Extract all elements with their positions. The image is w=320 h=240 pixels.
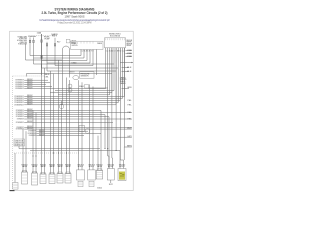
svg-text:PNK: PNK — [127, 53, 132, 55]
svg-text:RED/WHT: RED/WHT — [27, 115, 33, 117]
svg-text:RED/WHT: RED/WHT — [27, 111, 33, 113]
svg-text:OXYGENSENSOR: OXYGENSENSOR — [16, 116, 24, 118]
svg-text:OXYGENSENSOR: OXYGENSENSOR — [15, 88, 24, 90]
svg-text:Friday,December13,2002,11:04:3: Friday,December13,2002,11:04:38PM — [58, 22, 92, 25]
svg-text:FUELINJ: FUELINJ — [57, 164, 63, 166]
svg-text:IGN: IGN — [79, 86, 84, 88]
svg-text:1 2 3 4 5 6 7 8 9 0 1 2: 1 2 3 4 5 6 7 8 9 0 1 2 — [106, 50, 125, 52]
svg-text:RED/WHT: RED/WHT — [27, 113, 33, 115]
svg-text:OXYGENSENSOR: OXYGENSENSOR — [28, 131, 36, 133]
svg-text:MODULE(ECM): MODULE(ECM) — [110, 35, 120, 37]
svg-text:HOTATALLTIMES: HOTATALLTIMES — [18, 43, 28, 46]
svg-text:RED/WHT: RED/WHT — [27, 121, 33, 123]
svg-text:OXYGENSENSOR: OXYGENSENSOR — [15, 86, 24, 88]
svg-text:RED/WHT: RED/WHT — [27, 81, 33, 83]
svg-text:BODY: BODY — [108, 166, 114, 168]
svg-text:OXYGENSENSOR: OXYGENSENSOR — [15, 82, 24, 84]
svg-text:KNOCK: KNOCK — [71, 41, 77, 43]
svg-text:FUELINJ: FUELINJ — [49, 164, 55, 166]
svg-text:THROTTLE: THROTTLE — [88, 164, 95, 166]
svg-text:FUELINJ: FUELINJ — [65, 164, 71, 166]
svg-text:CASS: CASS — [97, 42, 102, 45]
svg-text:FUELINJ: FUELINJ — [22, 164, 28, 166]
svg-text:RED/WHT: RED/WHT — [27, 87, 33, 89]
svg-text:OXYGENSENSOR: OXYGENSENSOR — [14, 102, 24, 104]
svg-text:RED/WHT: RED/WHT — [27, 97, 33, 99]
svg-text:GRN: GRN — [127, 87, 131, 89]
svg-text:OXYGENSENSOR: OXYGENSENSOR — [15, 84, 24, 86]
svg-text:RED/WHT: RED/WHT — [39, 130, 45, 132]
svg-text:IGNITION: IGNITION — [72, 45, 78, 47]
svg-text:30A: 30A — [32, 35, 36, 38]
svg-text:REFER: REFER — [127, 43, 133, 45]
svg-text:SHIELD: SHIELD — [120, 79, 128, 81]
svg-text:RED/WHT: RED/WHT — [27, 83, 33, 85]
svg-text:RED/WHT: RED/WHT — [27, 103, 33, 105]
svg-text:OXYGENSENSOR: OXYGENSENSOR — [28, 133, 37, 135]
svg-text:OXYGENSENSOR: OXYGENSENSOR — [16, 112, 24, 114]
svg-text:OXYGENSENSOR: OXYGENSENSOR — [14, 104, 24, 106]
svg-text:SHIELD: SHIELD — [120, 83, 127, 85]
svg-text:OXYGENSENSOR: OXYGENSENSOR — [16, 122, 24, 124]
svg-text:PUMP: PUMP — [45, 39, 50, 41]
svg-text:BOOST: BOOST — [70, 72, 75, 74]
svg-text:RED/WHT: RED/WHT — [39, 132, 45, 134]
svg-text:BLK: BLK — [127, 71, 132, 73]
svg-text:RED/WHT: RED/WHT — [27, 126, 33, 128]
svg-text:RLY: RLY — [52, 36, 57, 38]
svg-text:RED/WHT: RED/WHT — [39, 134, 45, 136]
svg-text:OXYGENSENSOR: OXYGENSENSOR — [16, 127, 24, 129]
svg-text:SHIELD: SHIELD — [120, 81, 126, 83]
svg-text:PNK: PNK — [127, 50, 132, 52]
svg-text:G101: G101 — [97, 188, 102, 190]
svg-text:BLK: BLK — [127, 67, 132, 69]
svg-text:OXYGENSENSOR: OXYGENSENSOR — [14, 98, 24, 100]
svg-text:MAIN: MAIN — [52, 33, 58, 36]
svg-text:BODY: BODY — [78, 166, 84, 168]
svg-text:BRN: BRN — [127, 146, 132, 148]
svg-text:YEL: YEL — [127, 119, 132, 121]
svg-text:PRESSURE: PRESSURE — [81, 73, 90, 75]
svg-text:YEL: YEL — [127, 100, 132, 102]
svg-text:OXYGENSENSOR: OXYGENSENSOR — [14, 100, 24, 102]
svg-text:RED/WHT: RED/WHT — [27, 101, 33, 103]
svg-text:FUEL: FUEL — [44, 37, 50, 39]
svg-text:RED/WHT: RED/WHT — [27, 99, 33, 101]
svg-text:OXYGENSENSOR: OXYGENSENSOR — [17, 119, 24, 121]
svg-text:RED/WHT: RED/WHT — [27, 95, 33, 97]
svg-text:1997 Saab 900S: 1997 Saab 900S — [65, 15, 85, 19]
svg-text:REFER: REFER — [127, 40, 133, 42]
svg-text:OXYGENSENSOR: OXYGENSENSOR — [16, 110, 24, 112]
svg-text:RED/WHT: RED/WHT — [27, 109, 33, 111]
svg-text:OXYGENSENSOR: OXYGENSENSOR — [14, 96, 24, 98]
svg-text:PNK: PNK — [127, 56, 132, 58]
svg-text:FUELINJ: FUELINJ — [32, 164, 38, 166]
svg-text:YEL: YEL — [127, 104, 132, 106]
svg-text:ENGINECONTROL: ENGINECONTROL — [109, 34, 121, 36]
svg-text:CTRL: CTRL — [45, 77, 49, 79]
svg-text:BODY: BODY — [119, 166, 125, 168]
svg-text:THROTTLE: THROTTLE — [119, 164, 126, 166]
svg-text:GRY: GRY — [127, 136, 132, 138]
svg-text:REFER: REFER — [127, 42, 133, 44]
svg-text:THROTTLE: THROTTLE — [77, 164, 84, 166]
svg-text:FUELINJ: FUELINJ — [97, 164, 103, 166]
svg-text:REFER: REFER — [127, 45, 132, 47]
svg-text:DATALINKCON: DATALINKCON — [15, 139, 24, 142]
svg-text:BODY: BODY — [89, 166, 95, 168]
svg-text:S22: S22 — [109, 184, 113, 186]
svg-text:OXYGENSENSOR: OXYGENSENSOR — [29, 135, 37, 137]
svg-text:OXYGENSENSOR: OXYGENSENSOR — [15, 80, 24, 82]
svg-text:SENSOR: SENSOR — [81, 76, 90, 78]
svg-text:RLY: RLY — [57, 41, 61, 43]
svg-text:RED/WHT: RED/WHT — [27, 85, 33, 87]
svg-text:YEL: YEL — [127, 112, 132, 114]
svg-text:THROTTLE: THROTTLE — [108, 164, 115, 166]
svg-text:FUELINJ: FUELINJ — [40, 164, 46, 166]
svg-text:OXYGENSENSOR: OXYGENSENSOR — [16, 114, 24, 116]
svg-text:SHIELD: SHIELD — [120, 77, 127, 79]
svg-text:RED/WHT: RED/WHT — [27, 79, 33, 81]
svg-text:RED/WHT: RED/WHT — [27, 128, 33, 130]
svg-text:10A: 10A — [37, 31, 42, 34]
svg-text:DIRECT: DIRECT — [72, 43, 79, 45]
svg-text:RED/WHT: RED/WHT — [27, 118, 33, 120]
